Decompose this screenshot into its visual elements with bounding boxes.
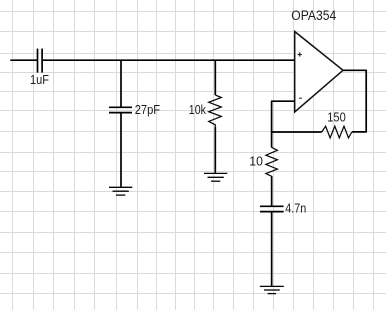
svg-text:OPA354: OPA354 [291, 8, 336, 23]
resistor R1 10k (shunt to ground) [209, 95, 222, 127]
capacitor C3 4.7n [260, 206, 284, 211]
ground symbol below C3 [260, 286, 284, 293]
wire: op-amp output to feedback column [343, 70, 366, 132]
op-amp U1 OPA354 triangle body [295, 32, 343, 113]
wire: branch down from main net to C2 [120, 60, 122, 106]
svg-text:4.7n: 4.7n [285, 200, 306, 215]
svg-text:150: 150 [327, 109, 346, 124]
wire: R3 to C3 [271, 176, 273, 206]
svg-text:27pF: 27pF [135, 102, 160, 117]
op-amp + (non-inverting) input marker [298, 52, 302, 56]
capacitor C1 1uF (series input cap) [38, 49, 43, 73]
svg-text:10k: 10k [189, 102, 207, 117]
op-amp - (inverting) input marker [299, 97, 302, 99]
wire: C3 to ground [271, 212, 273, 286]
wire: R2 to inverting-input node [271, 131, 322, 133]
wire: inverting input horizontal + vertical down to R3 [272, 101, 294, 147]
wire: C1 to op-amp non-inverting input (main horizontal net) [43, 59, 294, 61]
ground symbol below R1 [204, 173, 227, 181]
wire: input net from left edge to C1 [11, 59, 37, 61]
wire: C2 bottom plate to ground [120, 113, 122, 187]
resistor R3 10 (to C3) [266, 147, 278, 176]
capacitor C2 27pF (shunt to ground) [109, 107, 132, 112]
svg-text:1uF: 1uF [30, 72, 49, 87]
resistor R2 150 (feedback) [322, 126, 352, 138]
svg-text:10: 10 [249, 153, 263, 168]
ground symbol below C2 [109, 187, 132, 195]
wire: branch down from main net to R1 [214, 60, 216, 95]
wire: R1 to ground [214, 127, 216, 173]
